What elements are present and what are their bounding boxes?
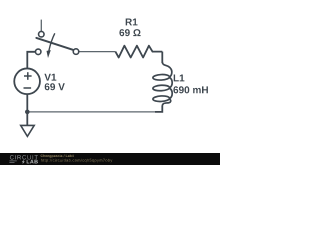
wire V1 bottom to junction <box>26 95 28 112</box>
switch arrow head <box>47 50 51 58</box>
switch toggle arrow arc <box>49 33 55 50</box>
CircuitLab logo: CIRCUIT <box>10 155 38 159</box>
switch common terminal <box>73 49 79 55</box>
ground <box>21 125 35 136</box>
resistor R1 <box>115 46 162 58</box>
wire bottom rail <box>27 111 156 113</box>
wire junction to ground <box>26 112 28 125</box>
watermark line 2: url <box>41 159 112 163</box>
label V1 <box>44 74 56 81</box>
inductor L1 <box>153 62 172 106</box>
voltage source V1 <box>14 68 40 94</box>
CircuitLab logo: dashes <box>9 161 16 163</box>
wire R1 to L1 top <box>161 52 163 63</box>
CircuitLab logo: bolt <box>22 160 25 165</box>
label 690 mH <box>173 86 208 93</box>
wire V1 top to switch left throw <box>27 52 35 68</box>
watermark line 1 <box>41 155 74 158</box>
footer watermark bar <box>0 153 220 165</box>
label L1 <box>174 75 185 82</box>
label 69 ohm <box>119 29 140 36</box>
label 69 V <box>45 83 65 90</box>
label R1 <box>126 19 138 26</box>
switch blade <box>36 38 73 50</box>
wire switch common to R1 <box>80 51 116 53</box>
CircuitLab logo: LAB <box>27 160 38 164</box>
junction node <box>25 110 30 115</box>
V1 minus sign <box>24 87 32 89</box>
wire stub above switch top throw <box>40 20 42 31</box>
switch top throw terminal <box>39 31 45 37</box>
V1 plus sign <box>24 72 32 88</box>
wire L1 bottom lead <box>155 106 162 112</box>
switch left throw terminal <box>35 49 41 55</box>
